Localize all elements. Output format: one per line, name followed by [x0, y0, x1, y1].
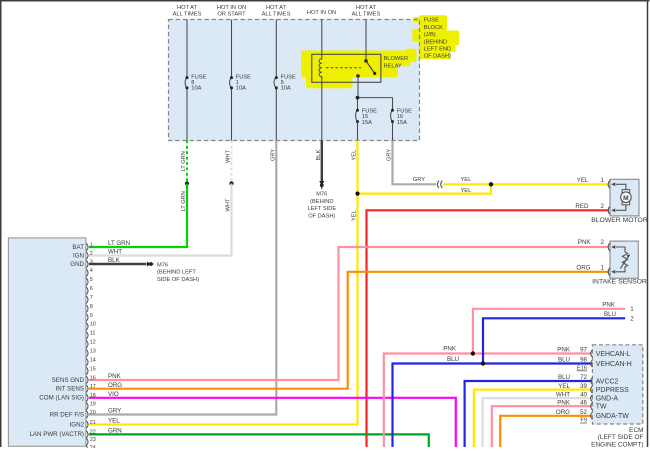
wire WHT to pin 2: [89, 184, 232, 256]
label LT GRN (upper, rotated): [181, 151, 187, 171]
label GRY (rotated): [271, 149, 277, 161]
svg-text:1: 1: [630, 306, 634, 313]
wire BLK to ground M76: [321, 141, 323, 182]
wire YEL to blower motor pin 1: [443, 183, 609, 185]
label HOT IN ON (relay coil feed): [307, 10, 336, 16]
svg-text:2: 2: [601, 239, 605, 246]
ground M76 symbol: [319, 181, 324, 189]
label E16: [577, 365, 588, 371]
svg-text:97: 97: [580, 347, 587, 354]
svg-text:HOT AT: HOT AT: [266, 5, 287, 11]
svg-text:(BEHIND: (BEHIND: [310, 199, 333, 205]
label LT GRN (lower, rotated): [181, 191, 187, 211]
svg-text:VEHCAN-L: VEHCAN-L: [596, 351, 631, 358]
blower motor pin 2 socket: [608, 206, 615, 214]
wire GRY fuse16 to connector: [393, 141, 437, 185]
svg-text:9: 9: [90, 313, 93, 319]
wire VIO pin18 off-page: [89, 398, 456, 447]
svg-text:23: 23: [90, 437, 96, 443]
svg-text:7: 7: [90, 295, 93, 301]
svg-text:40: 40: [580, 391, 587, 398]
ECM pin 72 AVCC2: [558, 374, 618, 385]
svg-text:LEFT END: LEFT END: [424, 47, 451, 53]
svg-text:20: 20: [90, 410, 96, 416]
wire ORG GNDA-TW: [500, 416, 592, 447]
wire BLK pin 3 to ground M76: [89, 263, 147, 266]
svg-text:PNK: PNK: [443, 346, 457, 353]
svg-text:14: 14: [90, 357, 96, 363]
svg-text:10A: 10A: [281, 85, 291, 91]
svg-text:ENGINE COMPT): ENGINE COMPT): [591, 441, 643, 448]
label BLK at left connector: [108, 257, 121, 264]
fuse block (J/B) box: [169, 20, 420, 141]
highlight blower relay: [301, 51, 411, 89]
fuse 8 10A: [185, 75, 207, 92]
svg-text:GRN: GRN: [108, 428, 122, 435]
wire feed to relay contact: [365, 20, 367, 62]
svg-text:GRY: GRY: [387, 149, 393, 161]
svg-text:52: 52: [580, 409, 587, 416]
ECM pin 46 TW: [557, 399, 607, 410]
svg-text:10A: 10A: [236, 85, 246, 91]
svg-text:(J/B): (J/B): [424, 32, 436, 38]
svg-text:WHT: WHT: [108, 249, 122, 256]
left connector pin 9: [86, 313, 93, 322]
label PNK near junction: [443, 346, 457, 353]
svg-text:1: 1: [601, 264, 605, 271]
left connector pin 10: [86, 322, 96, 331]
svg-text:RR DEF F/S: RR DEF F/S: [50, 411, 84, 418]
label FUSE BLOCK (J/B) (BEHIND LEFT END OF DASH): [424, 18, 451, 60]
fuse 5 10A: [274, 75, 296, 92]
svg-text:IGN2: IGN2: [70, 421, 85, 428]
left connector pin 7: [86, 295, 93, 304]
highlight fuse block label: [405, 15, 459, 62]
svg-text:10A: 10A: [191, 85, 201, 91]
svg-text:YEL: YEL: [108, 418, 120, 425]
label GRY (fuse16, rotated): [387, 149, 393, 161]
label YEL after connector: [461, 177, 472, 183]
left connector pin 18: [39, 393, 96, 402]
svg-text:17: 17: [90, 384, 96, 390]
left connector pin 17: [56, 384, 96, 393]
svg-text:VIO: VIO: [108, 391, 119, 398]
label RED and pin 2 at blower: [575, 203, 604, 210]
svg-text:INTAKE SENSOR: INTAKE SENSOR: [592, 279, 647, 286]
left connector pin 23: [86, 437, 96, 446]
ECM pin 39 PDPRESS: [558, 383, 629, 394]
svg-text:BLOWER: BLOWER: [384, 56, 409, 62]
wire LT GRN to pin 1: [89, 184, 187, 248]
label GRY at left connector: [108, 408, 121, 415]
ECM pin 40 GND-A: [556, 391, 619, 402]
label WHT at left connector: [108, 249, 122, 256]
wire LT GRN dashed segment: [186, 141, 188, 184]
wire feed to fuse 1: [231, 20, 233, 141]
left connector pin 13: [86, 349, 96, 358]
wire WHT dashed segment: [231, 141, 233, 184]
blower relay box: [312, 54, 381, 82]
label WHT (lower, rotated): [226, 198, 232, 211]
motor M symbol: [616, 184, 631, 210]
wire GRY fuse5 to pin 20: [89, 141, 276, 415]
svg-text:YEL: YEL: [461, 177, 472, 183]
inline connector symbol: [437, 181, 442, 188]
svg-text:AVCC2: AVCC2: [596, 378, 619, 385]
label BLK (rotated): [316, 150, 322, 161]
wire YEL branch to blower junction: [358, 184, 492, 193]
svg-text:HOT AT: HOT AT: [177, 5, 198, 11]
svg-text:LEFT SIDE: LEFT SIDE: [307, 206, 336, 212]
svg-text:PNK: PNK: [108, 373, 122, 380]
svg-text:SENS GND: SENS GND: [52, 377, 85, 384]
left connector pin 15: [86, 366, 96, 375]
svg-text:LT GRN: LT GRN: [181, 191, 187, 211]
svg-text:46: 46: [580, 399, 587, 406]
svg-text:72: 72: [580, 374, 587, 381]
svg-text:OF DASH): OF DASH): [308, 214, 335, 220]
wire fuse16 to box bottom: [392, 122, 394, 141]
label INTAKE SENSOR: [592, 279, 647, 286]
label F9: [580, 418, 587, 424]
svg-text:(BEHIND LEFT: (BEHIND LEFT: [157, 270, 196, 276]
svg-text:BLU: BLU: [604, 311, 616, 318]
svg-text:FUSE: FUSE: [424, 18, 439, 24]
svg-text:12: 12: [90, 340, 96, 346]
svg-text:IGN: IGN: [73, 252, 84, 259]
wire GRN pin22 off-page: [89, 434, 429, 447]
svg-text:1: 1: [601, 177, 605, 184]
left connector pin 14: [86, 357, 96, 366]
svg-text:ALL TIMES: ALL TIMES: [262, 11, 291, 17]
label M76 (BEHIND LEFT SIDE OF DASH): [307, 191, 336, 219]
label BLU near junction: [447, 356, 459, 363]
ECM pin 98 VEHCAN-H: [558, 357, 632, 368]
svg-text:BLK: BLK: [316, 150, 322, 161]
wire ORG pin17 to intake sensor pin 1: [89, 272, 609, 389]
svg-text:ALL TIMES: ALL TIMES: [352, 11, 381, 17]
svg-text:BLOWER MOTOR: BLOWER MOTOR: [591, 217, 648, 224]
svg-text:GRY: GRY: [413, 177, 425, 183]
svg-text:BAT: BAT: [72, 244, 84, 251]
svg-text:16: 16: [90, 375, 96, 381]
intake sensor pin 2 socket: [608, 243, 615, 251]
left connector pin 12: [86, 340, 96, 349]
wire relay coil to box bottom (BLK feed): [321, 82, 323, 140]
svg-text:BLU: BLU: [447, 356, 459, 363]
label HOT AT ALL TIMES (fuse 8): [173, 5, 202, 17]
svg-text:2: 2: [630, 316, 634, 323]
svg-text:RELAY: RELAY: [384, 63, 402, 69]
svg-text:PNK: PNK: [578, 239, 592, 246]
svg-text:BLOCK: BLOCK: [424, 25, 443, 31]
label YEL (mid, rotated): [352, 210, 358, 221]
svg-text:11: 11: [90, 331, 96, 337]
svg-text:OF DASH): OF DASH): [424, 54, 451, 60]
svg-text:ORG: ORG: [556, 409, 570, 416]
blower motor pin 1 socket: [608, 180, 615, 188]
svg-text:22: 22: [90, 430, 96, 436]
svg-text:19: 19: [90, 402, 96, 408]
svg-text:GRY: GRY: [271, 149, 277, 161]
fuse 16 15A: [391, 109, 413, 126]
svg-text:BLU: BLU: [558, 374, 570, 381]
svg-text:GND: GND: [70, 261, 84, 268]
svg-text:YEL: YEL: [352, 150, 358, 161]
label HOT AT ALL TIMES (relay contact feed): [352, 5, 381, 17]
wire fuse15 to box bottom: [357, 122, 359, 141]
splice on YEL: [355, 192, 359, 196]
wire YEL fuse15 to pin 21: [89, 141, 358, 425]
wire feed to fuse 5: [275, 20, 277, 141]
label GRY before connector: [413, 177, 425, 183]
svg-text:39: 39: [580, 383, 587, 390]
svg-text:LT GRN: LT GRN: [181, 151, 187, 171]
wire feed to relay coil: [321, 20, 323, 55]
svg-text:RED: RED: [575, 203, 589, 210]
svg-text:WHT: WHT: [226, 198, 232, 211]
left connector pin 6: [86, 286, 93, 295]
label HOT IN ON OR START (fuse 1): [217, 5, 246, 17]
intake sensor box: [610, 241, 638, 278]
fuse block dashed border: [169, 20, 420, 141]
wire PNK pin16 to intake sensor pin 2: [89, 247, 609, 380]
svg-text:18: 18: [90, 393, 96, 399]
fuse 1 10A: [230, 75, 252, 92]
svg-text:BLU: BLU: [558, 357, 570, 364]
svg-text:15A: 15A: [362, 120, 372, 126]
left connector pin 19: [86, 402, 96, 411]
label YEL lower branch: [461, 188, 472, 194]
svg-text:PNK: PNK: [557, 399, 571, 406]
svg-text:10: 10: [90, 322, 96, 328]
label YEL and pin 1 at blower: [577, 177, 605, 184]
svg-text:4: 4: [90, 268, 93, 274]
label LT GRN at left connector: [108, 240, 130, 247]
svg-text:YEL: YEL: [558, 383, 570, 390]
svg-text:SIDE OF DASH): SIDE OF DASH): [157, 277, 199, 283]
svg-text:TW: TW: [596, 404, 607, 411]
svg-text:YEL: YEL: [461, 188, 472, 194]
svg-text:6: 6: [90, 286, 93, 292]
svg-text:GNDA-TW: GNDA-TW: [596, 413, 629, 420]
svg-text:WHT: WHT: [226, 150, 232, 163]
label ORG and pin 1 at intake sensor: [576, 264, 604, 271]
svg-text:2: 2: [601, 203, 605, 210]
wire PNK VEHCAN-L: [384, 354, 593, 448]
label WHT (upper, rotated): [226, 150, 232, 163]
svg-text:LT GRN: LT GRN: [108, 240, 130, 247]
svg-text:LAN PWR (VACTR): LAN PWR (VACTR): [29, 431, 84, 438]
wire RED blower pin 2: [367, 210, 610, 447]
left connector pin 2: [73, 251, 93, 259]
label M76 (BEHIND LEFT SIDE OF DASH) right: [157, 262, 199, 283]
wire WHT GND-A: [483, 398, 593, 447]
svg-text:OR START: OR START: [217, 11, 246, 17]
left connector pin 5: [86, 277, 93, 286]
label VIO at left connector: [108, 391, 119, 398]
left connector pin 22: [29, 430, 95, 439]
label PNK and pin 2 at intake sensor: [578, 239, 605, 246]
label BLOWER MOTOR: [591, 217, 648, 224]
label YEL (upper, rotated): [352, 150, 358, 161]
svg-text:98: 98: [580, 357, 587, 364]
svg-text:3: 3: [90, 259, 93, 265]
label YEL at left connector: [108, 418, 120, 425]
splice WHT: [229, 181, 233, 185]
svg-text:15: 15: [90, 366, 96, 372]
svg-text:HOT AT: HOT AT: [356, 5, 377, 11]
svg-text:GRY: GRY: [108, 408, 121, 415]
left connector pin 8: [86, 304, 93, 313]
svg-text:ECM: ECM: [629, 427, 643, 434]
svg-text:ORG: ORG: [576, 264, 590, 271]
left connector pin 4: [86, 268, 93, 277]
ECM pin 52 GNDA-TW: [556, 409, 629, 420]
label ORG at left connector: [108, 382, 122, 389]
svg-text:VEHCAN-H: VEHCAN-H: [596, 361, 632, 368]
left connector pin 3: [70, 259, 93, 268]
svg-text:(LEFT SIDE OF: (LEFT SIDE OF: [598, 434, 644, 441]
svg-text:WHT: WHT: [556, 391, 570, 398]
ECM connector box: [592, 345, 642, 424]
svg-text:INT SENS: INT SENS: [56, 386, 84, 393]
wire PNK TW: [492, 406, 593, 447]
junction YEL: [489, 182, 493, 186]
fuse 15 15A: [356, 109, 378, 126]
svg-text:YEL: YEL: [352, 210, 358, 221]
svg-text:HOT IN ON: HOT IN ON: [307, 10, 336, 16]
left connector pin 1: [72, 242, 92, 251]
svg-text:13: 13: [90, 349, 96, 355]
svg-text:M: M: [623, 195, 629, 202]
wire BLU branch to pin 2 top: [483, 318, 625, 363]
svg-text:15A: 15A: [397, 120, 407, 126]
left connector pin 11: [86, 331, 95, 340]
relay coil-contact dashed link: [326, 67, 361, 69]
blower motor box: [610, 179, 639, 216]
left connector pin 16: [52, 375, 96, 384]
relay switch contact: [356, 59, 376, 78]
svg-text:PDPRESS: PDPRESS: [596, 387, 629, 394]
junction PNK: [471, 351, 475, 355]
label PNK pin 1 top right: [602, 301, 634, 313]
relay coil: [319, 54, 322, 82]
left connector pin 20: [50, 410, 96, 419]
svg-text:(BEHIND: (BEHIND: [424, 39, 447, 45]
svg-text:PNK: PNK: [602, 301, 616, 308]
label GRN at left connector: [108, 428, 122, 435]
svg-text:5: 5: [90, 277, 93, 283]
svg-text:M76: M76: [157, 262, 168, 268]
splice LT GRN: [185, 181, 189, 185]
thermistor symbol: [616, 247, 630, 272]
label PNK at left connector: [108, 373, 122, 380]
intake sensor pin 1 socket: [608, 268, 615, 276]
left connector pin 21: [70, 420, 96, 429]
svg-text:M76: M76: [316, 191, 327, 197]
wire PNK branch to pin 1 top: [473, 309, 625, 354]
wire relay output: [356, 76, 393, 110]
ground M76 arrow: [147, 262, 154, 267]
svg-text:COM (LAN SIG): COM (LAN SIG): [39, 395, 84, 402]
label ECM (LEFT SIDE OF ENGINE COMPT): [591, 427, 643, 448]
left connector pin 24: [86, 445, 96, 451]
svg-text:YEL: YEL: [577, 177, 589, 184]
label BLU pin 2 top right: [604, 311, 634, 323]
svg-text:8: 8: [90, 304, 93, 310]
svg-text:1: 1: [90, 242, 93, 248]
label BLOWER RELAY: [384, 56, 409, 69]
wire YEL PDPRESS: [474, 390, 593, 447]
svg-text:2: 2: [90, 251, 93, 257]
svg-text:ALL TIMES: ALL TIMES: [173, 11, 202, 17]
svg-text:ORG: ORG: [108, 382, 122, 389]
svg-text:BLK: BLK: [108, 257, 121, 264]
label HOT AT ALL TIMES (fuse 5): [262, 5, 291, 17]
wire BLU AVCC2: [465, 381, 593, 447]
junction BLU: [481, 361, 485, 365]
svg-text:GND-A: GND-A: [596, 396, 619, 403]
svg-text:PNK: PNK: [557, 347, 571, 354]
svg-text:HOT IN ON: HOT IN ON: [217, 5, 246, 11]
wire feed to fuse 8: [186, 20, 188, 141]
ECM pin 97 VEHCAN-L: [557, 347, 631, 358]
svg-text:21: 21: [90, 420, 96, 426]
wire BLU VEHCAN-H: [393, 364, 593, 448]
left connector block box: [8, 238, 86, 446]
